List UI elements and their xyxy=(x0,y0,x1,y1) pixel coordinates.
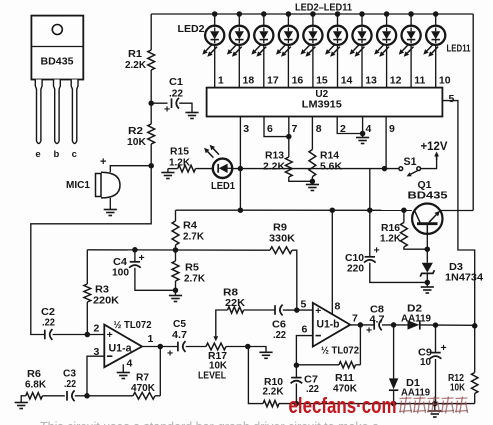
wire R1 to C1 node to R2 xyxy=(148,70,154,124)
resistor R2 xyxy=(148,124,155,144)
resistor R12 xyxy=(472,373,478,394)
zener diode D3 1N4734 xyxy=(420,263,434,277)
svg-text:+: + xyxy=(100,156,106,168)
svg-text:7: 7 xyxy=(352,313,358,325)
wire R16 top xyxy=(403,210,405,222)
svg-text:3: 3 xyxy=(243,123,249,135)
pin number 13 (U2 top) xyxy=(365,75,377,87)
potentiometer R17 wiper arrow xyxy=(213,311,218,341)
svg-text:2: 2 xyxy=(340,123,346,135)
wire LED3 cathode to U2 pin 18 xyxy=(238,45,240,88)
wire C9 to bottom rail xyxy=(435,359,437,404)
svg-text:C2: C2 xyxy=(41,307,55,318)
svg-text:R6: R6 xyxy=(27,369,41,380)
svg-text:AA119: AA119 xyxy=(401,314,431,325)
svg-text:.22: .22 xyxy=(42,318,55,329)
wire C7 to bottom rail xyxy=(295,383,297,403)
wire right-side vertical from rail to Q1 emitter xyxy=(472,14,474,211)
svg-text:4.7: 4.7 xyxy=(172,330,187,341)
svg-text:15: 15 xyxy=(316,75,328,87)
svg-text:18: 18 xyxy=(243,75,255,87)
svg-text:330K: 330K xyxy=(269,234,296,245)
wire U1-a pin 4 to ground xyxy=(122,364,124,372)
net label LED2-LED11 xyxy=(295,2,352,14)
resistor R1 xyxy=(148,50,155,70)
svg-text:R5: R5 xyxy=(185,263,199,274)
potentiometer R17 track xyxy=(206,343,226,350)
pin number 4 (U1-a) xyxy=(127,358,133,370)
svg-text:1: 1 xyxy=(218,75,224,87)
resistor R6 xyxy=(26,393,43,399)
svg-text:+: + xyxy=(107,329,113,341)
svg-text:U1-b: U1-b xyxy=(317,318,340,330)
svg-text:C1: C1 xyxy=(169,77,183,88)
svg-text:R4: R4 xyxy=(183,221,197,232)
wire LED8 cathode to U2 pin 13 xyxy=(361,45,363,88)
svg-text:S1: S1 xyxy=(404,156,417,168)
wire U2 pin 9 vertical xyxy=(385,117,387,169)
label D1 AA119 xyxy=(401,378,430,399)
op-amp U1-b xyxy=(313,303,350,347)
pin number 6 xyxy=(267,123,273,135)
svg-text:22K: 22K xyxy=(225,298,246,309)
capacitor C5 4.7 xyxy=(178,341,186,352)
wire D1 branch xyxy=(393,325,395,379)
svg-text:.22: .22 xyxy=(273,330,286,341)
label C2 .22 xyxy=(41,307,55,329)
pin number 18 (U2 top) xyxy=(243,75,255,87)
wire D1 to bottom rail xyxy=(393,391,395,404)
wire R12 to bottom rail xyxy=(474,394,476,404)
svg-text:LED11: LED11 xyxy=(447,44,471,55)
svg-text:LM3915: LM3915 xyxy=(302,100,342,111)
wire node line corner down to R3 xyxy=(86,250,88,284)
LED 3 (top row) xyxy=(227,11,249,57)
svg-text:C3: C3 xyxy=(63,369,76,380)
svg-text:LED2–LED11: LED2–LED11 xyxy=(295,2,352,14)
svg-text:c: c xyxy=(72,149,77,160)
svg-text:+: + xyxy=(164,104,170,116)
junction R13/R14 ground node xyxy=(310,177,316,185)
ground (U1-a pin 4) xyxy=(117,373,130,379)
diode D2 AA119 xyxy=(408,320,420,329)
label R10 2.2K xyxy=(263,377,285,398)
wire MIC node down-left to C2 xyxy=(31,166,151,335)
polarity + (C10) xyxy=(374,245,380,257)
wire C9 branch xyxy=(435,325,437,353)
wire U2 pin 7 vertical xyxy=(286,117,292,158)
label 1/2 TL072 (U1-a) xyxy=(114,320,152,331)
svg-text:C5: C5 xyxy=(173,319,186,330)
label S1 xyxy=(404,156,417,168)
pin number 17 (U2 top) xyxy=(267,75,279,87)
label R16 1.2K xyxy=(380,223,402,245)
ground (C1) xyxy=(185,113,198,119)
pin number 6 (U1-b) xyxy=(302,324,308,336)
svg-text:LED1: LED1 xyxy=(211,180,235,192)
wire signal node to R12 xyxy=(474,326,476,373)
capacitor C1 .22 xyxy=(172,98,180,109)
caption (cropped at bottom edge) xyxy=(40,420,379,425)
transistor package pictorial BD435 (TO-126 outline) xyxy=(31,16,83,80)
ground (bottom rail) xyxy=(428,411,441,417)
svg-text:U1-a: U1-a xyxy=(109,343,133,355)
wire rail to R4 xyxy=(175,210,177,221)
svg-text:2: 2 xyxy=(94,323,100,335)
ground (R17) xyxy=(259,347,272,359)
wire R7 ends xyxy=(84,393,160,399)
polarity + (C1) xyxy=(164,104,170,116)
svg-text:10: 10 xyxy=(420,357,431,368)
svg-text:12: 12 xyxy=(390,75,402,87)
wire R9 to U1-b pin5 node xyxy=(292,250,297,310)
svg-text:+: + xyxy=(441,342,447,354)
wire LED10 cathode to U2 pin 11 xyxy=(410,45,412,88)
polarity + (C9) xyxy=(441,342,447,354)
capacitor C3 .22 xyxy=(67,390,75,401)
svg-text:C6: C6 xyxy=(272,320,286,331)
LED 6 (top row) xyxy=(301,11,323,57)
wire R2 to MIC node xyxy=(148,144,154,168)
wire U2 pin 5 to right then down to signal node xyxy=(442,101,474,326)
svg-text:.22: .22 xyxy=(169,89,183,100)
pin number 8 xyxy=(316,123,322,135)
svg-text:220: 220 xyxy=(347,264,364,275)
svg-text:16: 16 xyxy=(292,75,304,87)
resistor R8 xyxy=(228,307,244,313)
svg-text:C4: C4 xyxy=(113,257,127,268)
capacitor C8 4.7 xyxy=(374,320,382,331)
svg-text:R2: R2 xyxy=(128,126,143,137)
wire U1-b pin 6 branch xyxy=(296,336,312,366)
svg-text:470K: 470K xyxy=(131,383,156,394)
label Q1 BD435 xyxy=(408,179,448,202)
label R4 2.7K xyxy=(183,221,205,243)
wire Q1 base rail xyxy=(176,207,412,213)
ground (D3) xyxy=(421,287,434,293)
transistor Q1 BD435 xyxy=(412,204,442,234)
label C1 .22 xyxy=(169,77,183,100)
svg-text:5.6K: 5.6K xyxy=(320,161,343,172)
wire D3 to ground node xyxy=(425,274,431,287)
wire LED11 cathode to U2 pin 10 xyxy=(435,45,437,88)
label MIC1 xyxy=(66,180,90,191)
capacitor C10 220 xyxy=(364,257,376,263)
wire R17 to ground branch xyxy=(226,344,262,350)
LED 7 (top row) xyxy=(325,11,347,57)
wire rail corner to R1 xyxy=(150,14,152,50)
svg-text:R3: R3 xyxy=(95,285,109,296)
label R2 10K xyxy=(127,126,147,148)
wire U1-b pin 8 from base rail xyxy=(331,210,333,314)
wire output down to R7 xyxy=(159,347,161,396)
wire C7 branch xyxy=(295,365,297,377)
wire U1-a pin 3 branch xyxy=(87,356,104,396)
label R9 330K xyxy=(269,223,296,245)
svg-text:This circuit uses a standard b: This circuit uses a standard bar-graph d… xyxy=(40,420,379,425)
label C10 220 xyxy=(345,253,364,275)
pin number 11 (U2 top) xyxy=(414,75,425,87)
wire C4 branch down xyxy=(134,250,136,262)
capacitor C2 .22 xyxy=(45,329,53,340)
svg-text:4.7: 4.7 xyxy=(370,315,385,326)
svg-text:R15: R15 xyxy=(170,147,189,158)
resistor R4 xyxy=(172,221,179,245)
svg-text:R1: R1 xyxy=(128,49,142,60)
label C8 4.7 xyxy=(370,305,385,326)
wire bottom rail (right section) xyxy=(279,401,475,407)
svg-text:10: 10 xyxy=(439,75,451,87)
pin number 2 xyxy=(340,123,346,135)
ground (R15) xyxy=(161,173,174,179)
svg-text:.22: .22 xyxy=(64,379,76,390)
label R17 10K LEVEL xyxy=(198,351,228,382)
svg-text:C10: C10 xyxy=(345,253,364,264)
wire C5 to R17 xyxy=(186,346,206,348)
svg-text:AA119: AA119 xyxy=(401,388,430,399)
package leg b xyxy=(54,80,61,144)
svg-text:6: 6 xyxy=(267,123,273,135)
wire U2 pin 2 to pin 4 xyxy=(337,117,362,134)
svg-text:6.8K: 6.8K xyxy=(25,380,47,391)
resistor R13 xyxy=(285,157,292,177)
wire R8 to C6 xyxy=(244,309,275,311)
package leg e xyxy=(35,80,42,144)
ground (R6) xyxy=(15,403,28,409)
junction dots on node line xyxy=(132,247,178,253)
svg-text:R9: R9 xyxy=(273,223,287,234)
svg-text:+: + xyxy=(315,305,321,317)
resistor R15 xyxy=(178,165,196,172)
svg-text:LEVEL: LEVEL xyxy=(198,371,226,382)
svg-text:+12V: +12V xyxy=(421,141,448,153)
wire C3 to node xyxy=(75,395,87,397)
svg-text:2.7K: 2.7K xyxy=(183,232,205,243)
svg-text:+: + xyxy=(374,245,380,257)
label R11 470K xyxy=(333,373,358,395)
capacitor C6 .22 xyxy=(275,305,283,316)
wire S1 branch down to base rail xyxy=(369,169,371,211)
wire output to C5 xyxy=(160,346,178,348)
svg-text:LED2: LED2 xyxy=(178,23,205,35)
svg-text:220K: 220K xyxy=(93,296,120,307)
LED1 xyxy=(204,145,232,178)
svg-text:4: 4 xyxy=(127,358,133,370)
svg-text:2.2K: 2.2K xyxy=(263,387,285,398)
wire R13 bottom to R14 bottom xyxy=(289,177,313,181)
wire LED1 to S1 line xyxy=(232,166,399,172)
pin number 7 xyxy=(292,123,298,135)
wire C10 bottom to D3 node xyxy=(370,263,428,283)
svg-text:2.7K: 2.7K xyxy=(184,274,206,285)
label R7 470K xyxy=(131,373,156,395)
label +12V xyxy=(421,141,448,153)
LED 8 (top row) xyxy=(350,11,372,57)
wire ground to R15 xyxy=(168,169,178,173)
svg-text:100: 100 xyxy=(112,268,129,279)
svg-text:1N4734: 1N4734 xyxy=(445,273,483,284)
ground (U2 pins 2,4) xyxy=(356,138,369,144)
label C9 10 xyxy=(418,348,432,369)
svg-text:8: 8 xyxy=(335,301,341,313)
label C3 .22 xyxy=(63,369,76,391)
svg-text:8: 8 xyxy=(316,123,322,135)
wire D2 to signal node xyxy=(420,322,478,328)
pin number 1 (U1-a) xyxy=(148,333,154,345)
wire C2 to U1-a pin 2 xyxy=(53,332,105,338)
label C7 .22 xyxy=(304,375,319,396)
label R5 2.7K xyxy=(184,263,206,285)
wire R5 bottom to ground xyxy=(173,281,179,296)
ground (R13/R14) xyxy=(306,185,319,191)
label R3 220K xyxy=(93,285,120,307)
svg-text:MIC1: MIC1 xyxy=(66,180,90,191)
svg-text:6: 6 xyxy=(302,324,308,336)
resistor R10 xyxy=(263,400,279,406)
wire LED2 cathode to U2 pin 1 xyxy=(214,45,216,88)
diode D1 AA119 xyxy=(389,378,398,390)
wire U2 pin 3 vertical xyxy=(239,117,241,211)
wire R16 bottom to collector xyxy=(404,247,427,249)
wire +12V LED anode rail (top) xyxy=(151,13,473,15)
polarity + (C5) xyxy=(167,348,173,360)
ground (MIC1) xyxy=(104,210,117,216)
label R15 1.2K xyxy=(169,147,191,169)
svg-text:9: 9 xyxy=(389,123,395,135)
pin number 1 (U2 top) xyxy=(218,75,224,87)
ground (R5) xyxy=(169,296,182,302)
supply arrow +12V xyxy=(434,152,439,161)
wire node to R5 xyxy=(175,250,177,261)
wire LED5 cathode to U2 pin 16 xyxy=(287,45,289,88)
svg-text:BD435: BD435 xyxy=(41,56,74,68)
svg-text:10K: 10K xyxy=(127,137,147,148)
label R1 2.2K xyxy=(125,49,147,71)
polarity + (C8) xyxy=(366,325,372,337)
LED 9 (top row) xyxy=(374,11,396,57)
wire LED9 cathode to U2 pin 12 xyxy=(386,45,388,88)
svg-text:R14: R14 xyxy=(320,151,339,162)
label LED11 xyxy=(447,44,471,55)
capacitor C9 10 xyxy=(430,353,442,359)
wire R11 to pin6 node xyxy=(294,362,361,368)
pin number 10 (U2 top) xyxy=(439,75,451,87)
polarity + (C4) xyxy=(139,252,145,264)
package pin labels e b c xyxy=(35,149,77,160)
pin number 5 (U1-b) xyxy=(301,299,307,311)
LED 11 (top row) xyxy=(423,11,445,57)
wire R6 ends xyxy=(21,396,65,403)
wire Q1 emitter to +12V rail xyxy=(440,210,473,212)
LED 4 (top row) xyxy=(251,11,273,57)
IC U2 LM3915 xyxy=(207,88,443,117)
pin number 9 xyxy=(389,123,395,135)
wire LED7 cathode to U2 pin 14 xyxy=(337,45,339,88)
pin number 5 (U2 right) xyxy=(449,93,455,105)
LED 5 (top row) xyxy=(276,11,298,57)
svg-text:½ TL072: ½ TL072 xyxy=(321,346,359,357)
svg-text:b: b xyxy=(53,149,59,160)
svg-text:R7: R7 xyxy=(136,373,149,384)
resistor R16 xyxy=(401,223,408,248)
svg-text:13: 13 xyxy=(365,75,377,87)
svg-text:elecfans·com: elecfans·com xyxy=(289,393,397,418)
pin number 16 (U2 top) xyxy=(292,75,304,87)
resistor R14 xyxy=(309,150,316,177)
svg-text:D3: D3 xyxy=(449,262,463,273)
op-amp U1-a xyxy=(104,325,142,368)
wire output down to R11 xyxy=(359,325,361,365)
label C5 4.7 xyxy=(172,319,187,341)
label D2 AA119 xyxy=(401,304,431,325)
svg-text:17: 17 xyxy=(267,75,279,87)
label D3 1N4734 xyxy=(445,262,483,284)
label R13 2.2K xyxy=(263,151,286,173)
wire MIC1 to ground xyxy=(109,198,111,210)
wire Q1 collector down xyxy=(425,234,431,263)
pin number 4 xyxy=(366,123,372,135)
pin number 14 (U2 top) xyxy=(341,75,353,87)
svg-text:7: 7 xyxy=(292,123,298,135)
microphone MIC1 xyxy=(96,172,121,198)
svg-text:2.2K: 2.2K xyxy=(125,60,147,71)
svg-text:R13: R13 xyxy=(265,151,284,162)
wire U2 pin 6 to pin 7 node xyxy=(264,117,289,137)
wire C8 to D2 xyxy=(382,322,408,328)
polarity + (MIC1) xyxy=(100,156,106,168)
wire U1-b output pin 7 xyxy=(350,322,374,328)
pin number 12 (U2 top) xyxy=(390,75,402,87)
wire C1 to ground xyxy=(179,103,192,112)
label R8 22K xyxy=(223,288,246,309)
wire S1 to +12V arrow xyxy=(421,156,437,169)
label R6 6.8K xyxy=(25,369,47,391)
resistor R9 xyxy=(270,247,292,254)
svg-text:10K: 10K xyxy=(450,383,466,394)
LED 2 (top row) xyxy=(202,11,224,57)
capacitor C4 100 xyxy=(129,262,141,268)
wire U2 pin 8 vertical xyxy=(311,117,313,150)
wire ground stem (bottom rail) xyxy=(434,404,436,411)
resistor R7 xyxy=(133,392,155,399)
watermark elecfans.com xyxy=(289,393,397,418)
pin number 3 xyxy=(243,123,249,135)
wire R17 wiper to R8 xyxy=(216,310,228,311)
wire R3 bottom to U1-a pin 2 line xyxy=(86,302,88,335)
wire LED6 cathode to U2 pin 15 xyxy=(312,45,314,88)
wire R17 branch down to bottom rail xyxy=(248,347,263,404)
resistor R3 xyxy=(84,284,91,302)
label 1/2 TL072 (U1-b) xyxy=(321,346,359,357)
switch S1 xyxy=(399,167,421,177)
svg-text:14: 14 xyxy=(341,75,353,87)
svg-text:BD435: BD435 xyxy=(408,190,448,202)
svg-text:R11: R11 xyxy=(335,373,354,384)
svg-text:+: + xyxy=(366,325,372,337)
wire C10 top xyxy=(369,210,371,257)
svg-text:e: e xyxy=(35,149,40,160)
package leg c xyxy=(71,80,78,144)
pin number 8 (U1-b) xyxy=(335,301,341,313)
svg-text:11: 11 xyxy=(414,75,425,87)
capacitor C7 .22 xyxy=(291,378,303,384)
pin number 7 (U1-b) xyxy=(352,313,358,325)
wire LED4 cathode to U2 pin 17 xyxy=(263,45,265,88)
svg-text:U2: U2 xyxy=(315,89,328,100)
svg-text:3: 3 xyxy=(94,346,100,358)
watermark chinese characters xyxy=(399,397,468,414)
resistor R11 xyxy=(339,362,356,368)
